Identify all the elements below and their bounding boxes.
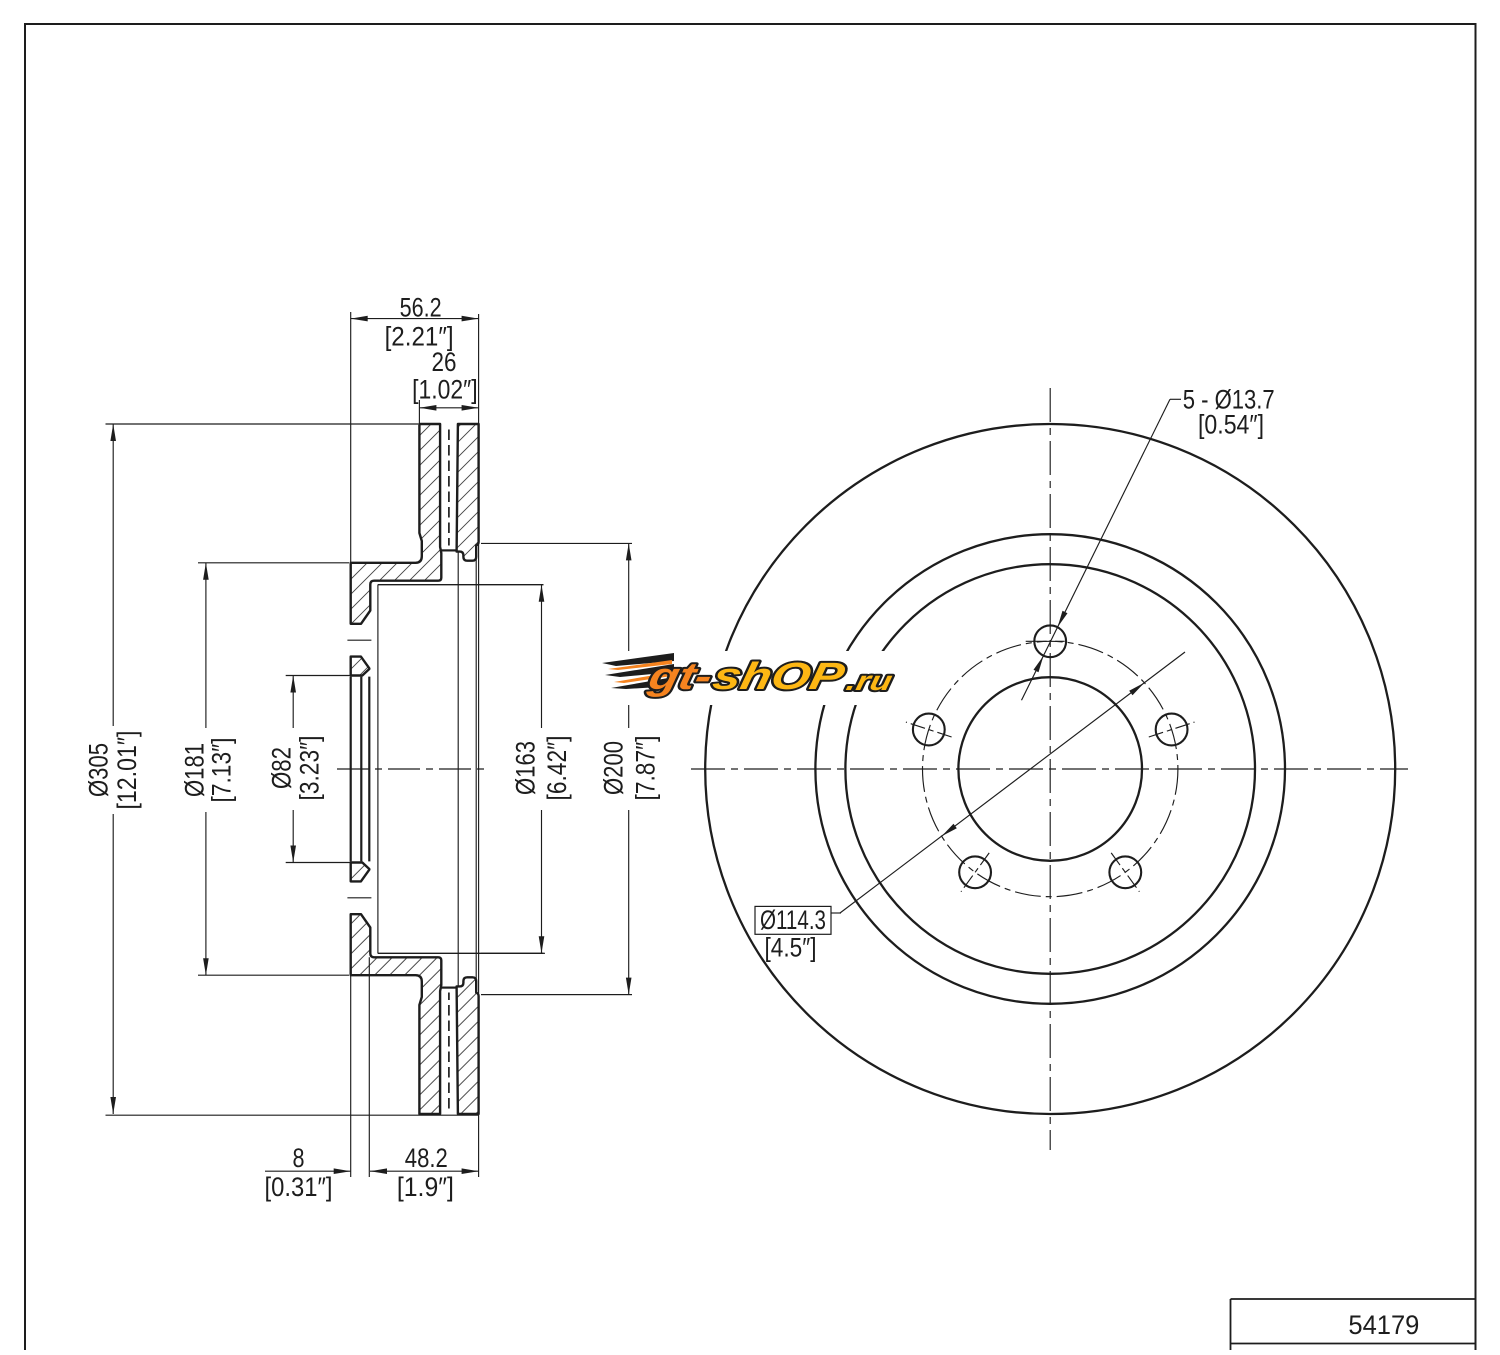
svg-text:[12.01″]: [12.01″] xyxy=(112,731,142,810)
svg-text:[3.23″]: [3.23″] xyxy=(295,736,325,801)
svg-text:48.2: 48.2 xyxy=(405,1143,448,1173)
svg-text:54179: 54179 xyxy=(1348,1310,1419,1340)
svg-text:[1.02″]: [1.02″] xyxy=(412,375,478,405)
svg-text:Ø181: Ø181 xyxy=(179,743,209,797)
svg-text:Ø82: Ø82 xyxy=(266,747,296,789)
svg-text:Ø114.3: Ø114.3 xyxy=(760,905,826,935)
svg-text:[7.13″]: [7.13″] xyxy=(206,738,236,803)
svg-text:shOP: shOP xyxy=(709,655,849,698)
svg-text:[0.54″]: [0.54″] xyxy=(1198,410,1264,440)
svg-text:[7.87″]: [7.87″] xyxy=(631,736,661,801)
svg-text:Ø200: Ø200 xyxy=(599,741,629,795)
svg-text:56.2: 56.2 xyxy=(400,293,442,323)
svg-text:8: 8 xyxy=(293,1143,305,1173)
svg-text:Ø305: Ø305 xyxy=(84,743,114,797)
svg-text:[4.5″]: [4.5″] xyxy=(765,933,817,963)
svg-text:gt-: gt- xyxy=(644,655,716,698)
svg-text:.ru: .ru xyxy=(844,665,896,696)
svg-text:Ø163: Ø163 xyxy=(510,741,540,795)
svg-text:26: 26 xyxy=(432,347,457,377)
svg-text:[1.9″]: [1.9″] xyxy=(397,1172,454,1202)
svg-text:[6.42″]: [6.42″] xyxy=(542,736,572,801)
svg-text:[0.31″]: [0.31″] xyxy=(265,1172,333,1202)
